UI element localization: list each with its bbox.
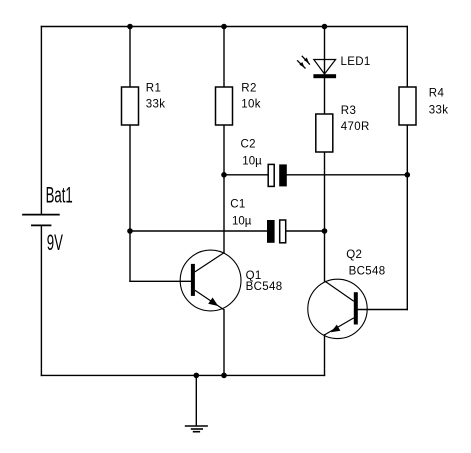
svg-text:R3: R3 [341,105,356,117]
svg-text:Bat1: Bat1 [46,183,73,207]
wire LED internal and cathode to R3 [324,60,326,115]
svg-text:Q2: Q2 [346,249,362,261]
capacitor C2 [268,164,287,186]
wire C2 left lead [224,174,268,176]
junction dot C1 left / Q1 base [127,228,133,234]
svg-text:R2: R2 [241,82,256,94]
transistor Q2 [308,279,367,338]
junction dot top rail / R1 [127,24,133,30]
wire R1 bottom to Q1 base node [129,125,131,281]
svg-text:C2: C2 [241,138,256,150]
wire R4 top lead [406,27,408,88]
junction dot top rail / R2 [221,24,227,30]
svg-text:10µ: 10µ [242,156,262,168]
wire left rail lower (battery - side) [40,226,42,375]
svg-text:C1: C1 [230,199,245,211]
wire left rail upper (battery + side) [40,27,42,214]
wire C1 right lead [286,230,325,232]
svg-text:BC548: BC548 [246,281,283,293]
wire C2 right lead [286,174,408,176]
svg-text:BC548: BC548 [349,265,386,277]
svg-text:470R: 470R [341,121,370,133]
transistor Q1 [180,250,241,311]
svg-text:9V: 9V [47,231,64,255]
wire Q2 emitter to ground rail [324,335,326,376]
wire Q1 emitter to ground rail [223,310,225,376]
wire R4 bottom to Q2 base node [406,125,408,310]
svg-text:R1: R1 [146,83,161,95]
svg-text:33k: 33k [429,104,449,116]
svg-text:R4: R4 [429,88,445,100]
junction dot Q1 emitter / ground rail [221,373,227,379]
ground symbol [185,375,208,431]
svg-text:10µ: 10µ [232,216,252,228]
capacitor C1 [267,220,286,243]
wire R2 top lead [223,27,225,88]
resistor R4 [399,87,416,125]
wire bottom ground rail [41,374,324,376]
junction dot C2 left / Q1 collector [221,172,227,178]
wire C1 left lead [130,230,268,232]
wire LED anode lead [324,27,326,60]
svg-text:33k: 33k [146,99,166,111]
LED LED1 [297,56,336,78]
resistor R1 [122,87,139,125]
junction dot top rail / LED [322,24,328,30]
resistor R2 [216,87,233,125]
wire Q1 base lead [130,280,191,282]
svg-text:10k: 10k [241,99,261,111]
battery Bat1 [22,215,60,226]
resistor R3 [316,114,333,152]
junction dot C2 right / Q2 base [405,172,411,178]
wire R1 top lead [129,27,131,88]
svg-text:LED1: LED1 [341,56,371,68]
junction dot ground stem [194,373,200,379]
wire Q2 base lead [358,309,408,311]
junction dot C1 right / Q2 collector [322,228,328,234]
wire R3 bottom to Q2 collector [324,152,326,281]
wire R2 bottom to Q1 collector [223,125,225,253]
wire top rail V+ [41,26,407,28]
